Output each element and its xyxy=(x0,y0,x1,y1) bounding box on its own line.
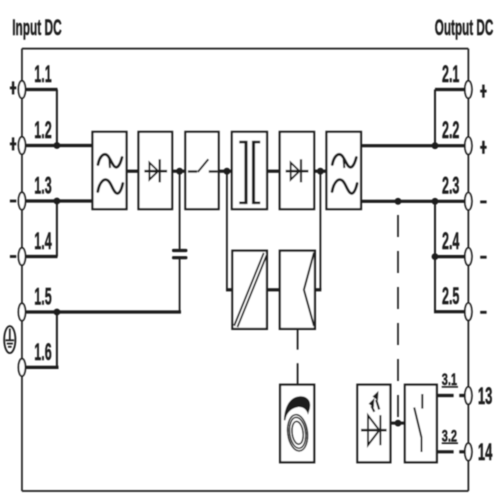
junction dot 1.2 jumper xyxy=(54,142,61,149)
svg-text:3.2: 3.2 xyxy=(442,427,457,445)
wire stub into DC converter xyxy=(226,288,234,291)
symbol switch left contact xyxy=(188,170,197,172)
wire terminal 1.2 to filter xyxy=(25,144,94,147)
wire terminal 1.5 to capacitor xyxy=(25,310,181,313)
wire output filter to terminal 2.3 xyxy=(360,200,466,203)
svg-text:14: 14 xyxy=(478,439,493,466)
symbol output filter tick xyxy=(343,158,346,169)
polarity plus 1.1 xyxy=(12,81,14,94)
terminal 1.4 xyxy=(18,248,25,265)
wire dashed sense line xyxy=(397,215,399,417)
svg-text:1.3: 1.3 xyxy=(34,172,51,199)
terminal 2.4 xyxy=(465,248,472,265)
wire relay to terminal 13 dashes xyxy=(437,394,465,397)
symbol LED wire xyxy=(361,429,387,432)
terminal 14 xyxy=(465,443,472,460)
terminal 13 xyxy=(465,387,472,404)
svg-text:1.6: 1.6 xyxy=(34,339,51,366)
wire LED-relay connector xyxy=(390,422,405,425)
junction dot 2.3 jumper xyxy=(432,198,439,205)
wire terminal 2.4 xyxy=(435,255,465,258)
block transformer T1 xyxy=(232,132,267,209)
wire jumper 2.3-2.5 xyxy=(434,201,436,311)
block DC converter U3 xyxy=(232,251,267,329)
symbol relay blade xyxy=(414,408,421,438)
polarity minus 2.3 xyxy=(480,201,486,204)
block potentiometer P1 xyxy=(280,385,314,463)
symbol potentiometer knob swoosh xyxy=(284,396,310,420)
junction dot amplifier tap xyxy=(317,168,324,175)
svg-text:2.1: 2.1 xyxy=(442,61,459,88)
wire terminal 1.4 xyxy=(25,255,57,258)
label 3.1 underline xyxy=(442,386,458,388)
symbol output diode cathode xyxy=(300,159,302,182)
wire chain diode2-filter2 xyxy=(313,170,329,173)
capacitor C1 top lead xyxy=(179,171,181,249)
capacitor C1 plates xyxy=(172,249,187,252)
polarity plus 2.2 xyxy=(482,141,484,154)
block output filter U2 xyxy=(327,132,362,209)
block amplifier U4 xyxy=(280,251,315,329)
symbol output filter upper sine xyxy=(332,154,356,167)
wire left terminal column xyxy=(21,49,23,491)
terminal 1.5 xyxy=(18,303,25,320)
terminal 2.1 xyxy=(465,81,472,98)
wire top boundary xyxy=(22,48,468,50)
wire output filter to terminal 2.2 xyxy=(360,144,466,147)
terminal 1.2 xyxy=(18,137,25,154)
block switch S1 xyxy=(185,132,218,209)
junction dot converter tap xyxy=(224,168,231,175)
symbol output filter lower sine xyxy=(332,180,357,194)
wire jumper 1.1-1.2 xyxy=(56,90,58,146)
polarity minus 1.3 xyxy=(10,200,16,203)
wire terminal 1.1 xyxy=(25,88,57,91)
block LED indicator xyxy=(357,385,390,463)
wire right terminal column xyxy=(467,49,469,491)
wire drop to amplifier block xyxy=(319,171,321,290)
symbol input filter tick xyxy=(108,158,111,169)
wire terminal 2.5 xyxy=(434,310,465,313)
wire drop to DC converter block xyxy=(226,171,228,290)
wire dashed control to potentiometer xyxy=(297,327,299,386)
wire chain filter-diode xyxy=(125,170,140,173)
svg-text:1.5: 1.5 xyxy=(34,283,51,310)
svg-text:3.1: 3.1 xyxy=(442,371,457,389)
polarity minus 2.5 xyxy=(480,311,486,314)
junction dot 1.3 jumper xyxy=(54,198,61,205)
symbol LED cathode xyxy=(379,415,381,445)
wire jumper 1.3-1.4 xyxy=(56,201,58,257)
symbol DC converter diagonal double line xyxy=(236,254,266,327)
svg-text:Input DC: Input DC xyxy=(12,15,62,40)
wire chain switch-transformer xyxy=(217,170,234,173)
svg-text:2.3: 2.3 xyxy=(442,173,459,200)
symbol input diode triangle xyxy=(149,163,158,180)
wire relay to terminal 14 dashes xyxy=(437,450,465,453)
polarity minus 1.4 xyxy=(10,255,16,258)
symbol switch blade xyxy=(198,159,209,172)
wire stub into amplifier xyxy=(314,288,322,291)
symbol output diode wire xyxy=(286,170,309,173)
junction dot 1.5 jumper xyxy=(54,309,61,316)
svg-text:1.4: 1.4 xyxy=(34,228,52,255)
label 3.2 underline xyxy=(442,442,458,444)
symbol input filter upper sine xyxy=(98,154,122,167)
terminal 2.3 xyxy=(465,193,472,210)
terminal 2.5 xyxy=(465,303,472,320)
ground symbol PE xyxy=(4,326,15,353)
wire terminal 2.1 xyxy=(435,88,465,91)
symbol output diode triangle xyxy=(291,163,300,180)
wire terminal 1.3 to filter xyxy=(25,199,94,202)
terminal 1.3 xyxy=(18,192,25,209)
terminal 1.6 xyxy=(18,359,25,376)
svg-text:2.2: 2.2 xyxy=(442,117,459,144)
wire jumper 1.5-1.6 xyxy=(56,312,58,367)
symbol relay bottom lead xyxy=(421,438,423,452)
symbol LED arrow 2 xyxy=(376,400,379,410)
symbol relay top lead xyxy=(421,394,423,409)
polarity plus 1.2 xyxy=(12,137,14,150)
symbol input filter lower sine xyxy=(98,180,123,194)
block output diode D2 xyxy=(280,132,314,209)
symbol transformer left winding xyxy=(244,141,247,204)
svg-text:2.5: 2.5 xyxy=(442,283,459,310)
wire terminal 1.6 xyxy=(25,366,58,369)
symbol input diode cathode xyxy=(159,159,161,182)
block input diode D1 xyxy=(139,132,173,209)
junction dot 2.2 jumper xyxy=(432,142,439,149)
symbol input diode wire xyxy=(144,170,167,173)
svg-text:13: 13 xyxy=(478,383,493,410)
symbol transformer right winding xyxy=(252,141,255,204)
symbol amplifier chevron xyxy=(304,253,314,326)
symbol switch right contact xyxy=(209,170,218,172)
capacitor C1 bottom lead xyxy=(179,259,181,312)
block input filter U1 xyxy=(93,132,127,209)
svg-text:2.4: 2.4 xyxy=(442,228,460,255)
wire chain diode-switch xyxy=(171,170,188,173)
symbol LED arrow 1 xyxy=(372,406,375,412)
svg-text:1.2: 1.2 xyxy=(34,117,51,144)
terminal 2.2 xyxy=(465,137,472,154)
wire converter-amplifier connector xyxy=(266,288,282,291)
junction dot capacitor tap xyxy=(176,168,183,175)
junction dot LED-relay xyxy=(395,420,402,427)
junction dot 2.4 jumper xyxy=(432,253,439,260)
polarity plus 2.1 xyxy=(482,85,484,98)
block relay contact K1 xyxy=(405,385,437,463)
wire jumper 2.1-2.2 xyxy=(434,90,436,146)
symbol potentiometer rings xyxy=(286,414,310,453)
svg-text:1.1: 1.1 xyxy=(34,61,51,88)
wire chain transformer-diode2 xyxy=(266,170,282,173)
terminal 1.1 xyxy=(18,81,25,98)
svg-text:Output DC: Output DC xyxy=(435,15,494,40)
polarity minus 2.4 xyxy=(480,256,486,259)
junction dot sense tap xyxy=(395,198,402,205)
wire bottom boundary xyxy=(22,490,468,492)
symbol LED triangle xyxy=(368,415,379,445)
